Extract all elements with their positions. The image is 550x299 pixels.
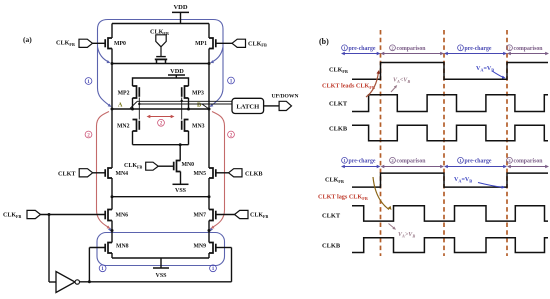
- svg-text:comparison: comparison: [397, 159, 427, 165]
- svg-text:MN4: MN4: [116, 171, 129, 177]
- svg-text:MP0: MP0: [114, 41, 126, 47]
- wire: MP0 gate: [93, 42, 106, 44]
- svg-text:CLKT: CLKT: [329, 100, 348, 107]
- dashed phase boundary 2: [443, 30, 445, 256]
- wire: left rail mid: [111, 109, 113, 168]
- svg-text:pre-charge: pre-charge: [465, 159, 492, 165]
- wire: tail row: [111, 178, 113, 197]
- wire: top rail: [112, 23, 209, 25]
- region 1 outline (pre-charge top): [98, 20, 224, 106]
- region 1 arrow to right pre-charge node: [212, 47, 223, 62]
- svg-text:1: 1: [230, 78, 233, 84]
- svg-text:2: 2: [87, 132, 90, 138]
- svg-text:CLKB: CLKB: [245, 170, 263, 177]
- svg-text:VA<VB: VA<VB: [393, 78, 410, 84]
- wire: left rail to node A: [111, 64, 113, 110]
- svg-text:CLKT leads CLKFB: CLKT leads CLKFB: [322, 83, 375, 90]
- wire: latch output: [264, 105, 280, 107]
- wire: rails to MN6 MN7: [111, 197, 113, 210]
- mismatch arrow circled 2: [150, 116, 172, 118]
- circled 1 bottom-left: [99, 265, 106, 272]
- region 1 bottom arrows: [108, 228, 111, 232]
- wire: source row: [111, 253, 113, 258]
- svg-text:LATCH: LATCH: [236, 103, 260, 110]
- header pre-charge 1: [342, 45, 348, 51]
- node: inverter tap: [48, 213, 51, 216]
- wire: MN7 to MN9: [208, 221, 210, 243]
- header pre-charge 2: [458, 157, 464, 163]
- svg-text:VA=VB: VA=VB: [476, 66, 494, 72]
- input buffer CLKFB right-top: [232, 39, 246, 47]
- svg-text:A: A: [118, 103, 123, 109]
- wire: right gate column: [181, 98, 183, 120]
- input buffer CLKFB bottom-left: [27, 210, 41, 218]
- region 2 outline (comparison middle): [97, 112, 110, 228]
- wire: MP3 drain to row: [188, 98, 190, 109]
- header comparison 2: [507, 45, 513, 51]
- svg-text:VA>VB: VA>VB: [398, 232, 415, 238]
- node: right pre-charge junction: [208, 62, 211, 65]
- transistor MN9: [209, 243, 213, 254]
- input buffer CLKFB left-top: [79, 39, 93, 47]
- node: right source junction: [208, 229, 211, 232]
- transistor MN3: [185, 120, 189, 132]
- svg-text:MN0: MN0: [182, 162, 195, 168]
- wire: MP2 drain to row: [132, 98, 134, 109]
- svg-text:(b): (b): [319, 37, 329, 46]
- region 1 outline (bottom pre-charge): [97, 233, 225, 266]
- transistor MP1: [209, 38, 213, 49]
- svg-text:comparison: comparison: [514, 46, 544, 52]
- header comparison 2: [507, 157, 513, 163]
- header pre-charge 1: [342, 157, 348, 163]
- wire: node A line to latch: [130, 102, 137, 109]
- header comparison 1: [390, 157, 396, 163]
- svg-text:1: 1: [87, 79, 90, 85]
- node: left source junction: [111, 229, 114, 232]
- svg-text:2: 2: [230, 132, 233, 138]
- svg-text:1: 1: [101, 266, 104, 272]
- svg-text:VSS: VSS: [155, 273, 167, 279]
- svg-text:comparison: comparison: [514, 159, 544, 165]
- svg-text:pre-charge: pre-charge: [465, 46, 492, 52]
- circled 2 mid-left: [85, 131, 92, 138]
- svg-text:MP2: MP2: [118, 91, 130, 97]
- svg-text:CLKFB: CLKFB: [250, 213, 269, 219]
- wire: latch tail: [132, 131, 134, 145]
- equalization transistor: [160, 47, 162, 56]
- svg-text:VSS: VSS: [175, 188, 187, 194]
- svg-text:CLKFB: CLKFB: [124, 163, 143, 169]
- circled 1 top-right: [228, 77, 235, 84]
- transistor MP2: [133, 86, 137, 98]
- ground VSS bottom: [160, 258, 162, 268]
- circled 1 bottom-right: [210, 265, 217, 272]
- transistor MN8: [108, 243, 112, 254]
- circled 1 top-left: [85, 78, 92, 85]
- transistor MP3: [185, 86, 189, 98]
- input buffer CLKB: [229, 169, 243, 177]
- transistor MN6: [108, 210, 112, 221]
- node: left pre-charge junction: [111, 62, 114, 65]
- svg-text:CLKT: CLKT: [58, 170, 76, 177]
- transistor MN5: [209, 168, 213, 178]
- wire: MN9 gate: [216, 247, 232, 249]
- wire: MP1 gate: [216, 42, 232, 44]
- transistor MP0: [108, 38, 112, 49]
- svg-text:MP1: MP1: [195, 41, 207, 47]
- wire: left gate column: [138, 98, 140, 120]
- svg-text:MN6: MN6: [116, 213, 129, 219]
- svg-text:pre-charge: pre-charge: [349, 159, 376, 165]
- wire: MN8 gate: [89, 247, 105, 249]
- svg-text:CLKT: CLKT: [322, 213, 341, 220]
- header comparison 1: [390, 45, 396, 51]
- wire: MN5 gate: [216, 172, 229, 174]
- region 1 arrow to left pre-charge node: [98, 47, 109, 62]
- lag arrow: [373, 177, 389, 210]
- svg-text:MN8: MN8: [116, 244, 129, 250]
- input buffer CLKT: [79, 169, 93, 177]
- transistor MN7: [209, 210, 213, 221]
- wire: pre-charge node row: [111, 49, 113, 64]
- wire: right rail to node B: [208, 64, 210, 110]
- wire: inverter output row: [79, 281, 81, 283]
- wire: MN4 gate: [93, 172, 106, 174]
- wire: inverter input: [48, 215, 50, 283]
- svg-text:VDD: VDD: [170, 68, 184, 75]
- wire: node A-B row: [112, 108, 209, 110]
- transistor MN4: [108, 168, 112, 178]
- wire: latch supply bracket: [133, 78, 189, 86]
- svg-text:2: 2: [160, 121, 163, 127]
- wire: right rail upper: [208, 24, 210, 39]
- svg-text:VA=VB: VA=VB: [454, 177, 472, 183]
- svg-text:MN3: MN3: [192, 124, 205, 130]
- svg-text:VDD: VDD: [173, 4, 187, 11]
- node A: [111, 108, 114, 111]
- dashed phase boundary 1: [380, 30, 382, 256]
- svg-text:CLKFB: CLKFB: [3, 213, 22, 219]
- svg-text:CLKT lags CLKFB: CLKT lags CLKFB: [318, 194, 368, 201]
- lead arrow: [366, 72, 379, 97]
- svg-text:B: B: [197, 103, 201, 109]
- svg-text:MP3: MP3: [192, 91, 204, 97]
- wire: MN6 to MN8: [111, 221, 113, 243]
- svg-text:(a): (a): [23, 35, 32, 44]
- svg-text:CLKB: CLKB: [322, 243, 341, 250]
- svg-text:MN2: MN2: [117, 124, 130, 130]
- node B: [208, 108, 211, 111]
- transistor MN0: [177, 161, 181, 172]
- inverter: [56, 272, 75, 293]
- svg-text:comparison: comparison: [397, 46, 427, 52]
- svg-text:MN9: MN9: [193, 244, 206, 250]
- svg-text:MN7: MN7: [193, 213, 206, 219]
- ground VSS under MN0: [180, 172, 182, 185]
- wire: MN7 gate: [216, 214, 235, 216]
- header pre-charge 2: [458, 45, 464, 51]
- wire: right rail mid: [208, 109, 210, 168]
- output buffer UP/DOWN: [279, 101, 291, 110]
- wire: node B line to latch: [139, 103, 233, 105]
- svg-text:UP/DOWN: UP/DOWN: [271, 93, 298, 99]
- svg-text:1: 1: [212, 266, 215, 272]
- wire: MN6 gate + CLKFB input: [41, 214, 106, 216]
- wire: MN0 gate: [158, 165, 174, 167]
- svg-text:MN5: MN5: [193, 171, 206, 177]
- svg-text:CLKB: CLKB: [329, 126, 348, 133]
- transistor MN2: [133, 120, 137, 132]
- circled 2 mid-right: [228, 131, 235, 138]
- input buffer CLKFB right-bottom: [235, 210, 249, 218]
- dashed phase boundary 3: [506, 30, 508, 256]
- latch U1: [232, 98, 264, 113]
- wire: left rail upper: [111, 24, 113, 39]
- svg-text:pre-charge: pre-charge: [349, 46, 376, 52]
